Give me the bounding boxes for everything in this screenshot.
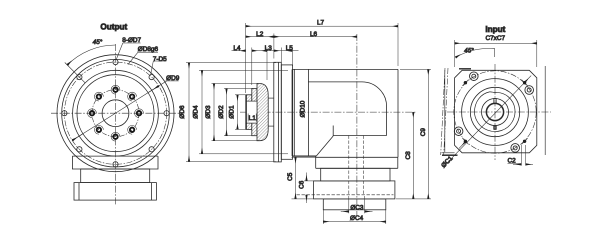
svg-text:ØC4: ØC4 [350,215,364,222]
svg-text:ØD3: ØD3 [205,105,212,119]
svg-text:L3: L3 [265,45,273,52]
svg-text:C2: C2 [508,158,517,165]
svg-text:ØD1: ØD1 [229,105,236,119]
svg-text:L5: L5 [286,45,294,52]
svg-text:C7xC7: C7xC7 [486,35,506,42]
svg-text:ØD8g6: ØD8g6 [138,46,159,53]
svg-text:ØD9: ØD9 [166,75,180,82]
svg-text:ØD6: ØD6 [179,105,186,119]
svg-text:7-D5: 7-D5 [153,56,167,63]
svg-text:L7: L7 [317,20,325,27]
svg-text:ØD10: ØD10 [299,100,306,117]
svg-text:45°: 45° [464,46,474,54]
svg-text:ØD4: ØD4 [192,105,199,119]
svg-text:45°: 45° [93,38,103,46]
svg-text:C8: C8 [405,151,412,160]
svg-text:Input: Input [485,25,505,34]
svg-text:L1: L1 [249,115,257,122]
svg-text:ØC3: ØC3 [350,205,364,212]
svg-text:C5: C5 [287,172,294,181]
svg-text:C6: C6 [298,180,305,189]
svg-text:ØD2: ØD2 [218,105,225,119]
svg-text:L4: L4 [233,45,241,52]
svg-text:C9: C9 [420,128,427,137]
svg-text:8-ØD7: 8-ØD7 [122,37,141,44]
svg-text:L6: L6 [310,31,318,38]
svg-text:L2: L2 [256,31,264,38]
svg-text:Output: Output [100,22,127,31]
